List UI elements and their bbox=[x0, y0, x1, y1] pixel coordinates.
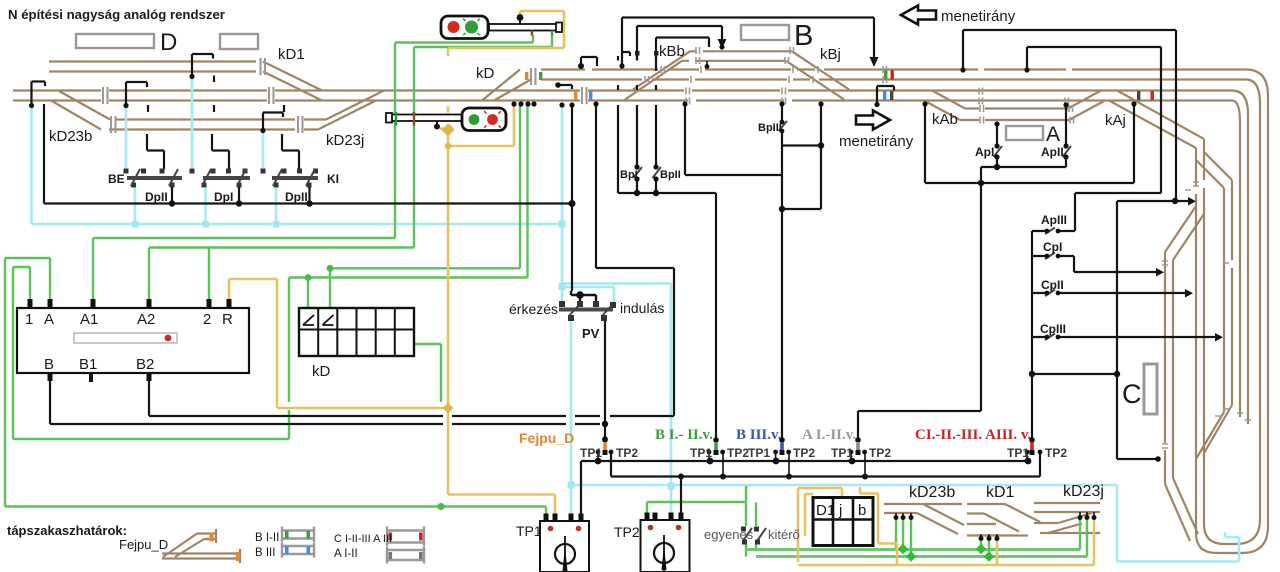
svg-text:TP1: TP1 bbox=[690, 446, 712, 460]
svg-text:menetirány: menetirány bbox=[941, 8, 1016, 25]
svg-text:kD: kD bbox=[476, 65, 495, 82]
svg-text:2: 2 bbox=[203, 311, 211, 328]
svg-text:CI.-II.-III. AIII. v.: CI.-II.-III. AIII. v. bbox=[915, 427, 1032, 443]
svg-text:TP1: TP1 bbox=[748, 446, 770, 460]
svg-text:TP2: TP2 bbox=[869, 446, 891, 460]
svg-text:tápszakaszhatárok:: tápszakaszhatárok: bbox=[7, 523, 127, 538]
svg-text:R: R bbox=[222, 311, 233, 328]
svg-text:ApI: ApI bbox=[975, 145, 994, 159]
svg-text:kD23j: kD23j bbox=[1063, 483, 1104, 500]
svg-text:indulás: indulás bbox=[620, 300, 664, 316]
svg-text:TP1: TP1 bbox=[1007, 446, 1029, 460]
svg-text:kD: kD bbox=[312, 363, 331, 380]
svg-text:DpIII: DpIII bbox=[285, 190, 311, 204]
svg-text:A2: A2 bbox=[137, 311, 155, 328]
svg-text:TP2: TP2 bbox=[727, 446, 749, 460]
svg-text:Fejpu_D: Fejpu_D bbox=[519, 430, 574, 446]
svg-text:DpII: DpII bbox=[145, 190, 168, 204]
svg-text:ApIII: ApIII bbox=[1041, 213, 1067, 227]
svg-text:BpIII: BpIII bbox=[758, 122, 782, 134]
svg-text:A1: A1 bbox=[80, 311, 98, 328]
svg-text:1: 1 bbox=[25, 311, 33, 328]
svg-text:B III.v.: B III.v. bbox=[736, 427, 782, 443]
svg-text:D1: D1 bbox=[816, 502, 835, 519]
svg-text:kD1: kD1 bbox=[278, 46, 305, 63]
svg-text:kBb: kBb bbox=[659, 43, 685, 60]
svg-text:A: A bbox=[44, 311, 54, 328]
svg-text:kBj: kBj bbox=[820, 46, 841, 63]
svg-text:BpII: BpII bbox=[660, 169, 681, 181]
svg-text:egyenes: egyenes bbox=[704, 527, 754, 542]
svg-text:kD1: kD1 bbox=[986, 484, 1015, 501]
svg-text:D: D bbox=[160, 29, 177, 56]
svg-text:TP1: TP1 bbox=[516, 523, 542, 539]
svg-text:B III: B III bbox=[255, 547, 275, 559]
svg-text:TP2: TP2 bbox=[793, 446, 815, 460]
svg-text:TP2: TP2 bbox=[614, 524, 640, 540]
svg-text:KI: KI bbox=[327, 172, 339, 186]
svg-text:A I-II: A I-II bbox=[334, 548, 358, 560]
svg-text:kD23j: kD23j bbox=[326, 132, 364, 149]
svg-text:B: B bbox=[794, 20, 813, 52]
svg-text:A: A bbox=[1046, 123, 1060, 146]
svg-text:kAj: kAj bbox=[1105, 112, 1126, 129]
svg-text:C: C bbox=[1122, 379, 1142, 409]
svg-text:TP1: TP1 bbox=[580, 446, 602, 460]
svg-text:CpII: CpII bbox=[1041, 278, 1064, 292]
svg-text:CpI: CpI bbox=[1043, 240, 1062, 254]
svg-text:B I.- II.v.: B I.- II.v. bbox=[655, 427, 713, 443]
svg-text:menetirány: menetirány bbox=[839, 133, 914, 150]
svg-text:B2: B2 bbox=[136, 356, 154, 373]
svg-text:TP2: TP2 bbox=[1045, 446, 1067, 460]
svg-text:kAb: kAb bbox=[932, 111, 958, 128]
svg-text:B1: B1 bbox=[79, 356, 97, 373]
svg-text:érkezés: érkezés bbox=[509, 301, 558, 317]
svg-text:BE: BE bbox=[108, 172, 125, 186]
svg-text:A I.-II.v.: A I.-II.v. bbox=[802, 427, 856, 443]
svg-text:Fejpu_D: Fejpu_D bbox=[119, 537, 168, 552]
svg-text:kD23b: kD23b bbox=[909, 484, 955, 501]
svg-text:ApII: ApII bbox=[1041, 145, 1064, 159]
svg-text:TP1: TP1 bbox=[831, 446, 853, 460]
svg-text:PV: PV bbox=[582, 326, 600, 341]
svg-text:CpIII: CpIII bbox=[1040, 322, 1066, 336]
svg-text:kD23b: kD23b bbox=[49, 128, 92, 145]
svg-text:TP2: TP2 bbox=[616, 446, 638, 460]
svg-text:N építési nagyság analóg rends: N építési nagyság analóg rendszer bbox=[8, 7, 225, 22]
svg-text:DpI: DpI bbox=[214, 190, 233, 204]
svg-text:j: j bbox=[838, 502, 842, 519]
svg-text:C I-II-III A III: C I-II-III A III bbox=[334, 533, 392, 545]
svg-text:B: B bbox=[44, 356, 54, 373]
svg-text:b: b bbox=[858, 502, 866, 519]
svg-text:B I-II: B I-II bbox=[255, 532, 279, 544]
svg-text:BpI: BpI bbox=[620, 169, 638, 181]
svg-text:kitérő: kitérő bbox=[768, 527, 800, 542]
